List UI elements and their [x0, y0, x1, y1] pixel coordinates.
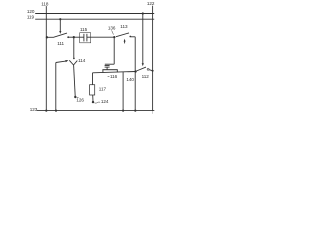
- node junction switch 113: [113, 36, 115, 38]
- wire main line from switch 111 to capacitor 115: [69, 36, 80, 38]
- svg-text:112: 112: [142, 74, 150, 79]
- wire main line from capacitor 115 to switch 113: [91, 36, 115, 38]
- actuator arrow for switch 113 (points up at blade): [124, 39, 126, 44]
- capacitor C115: [80, 34, 91, 42]
- leader tick 136: [112, 30, 114, 34]
- wire vertical from mid line down to bottom bus (labelled 140): [122, 72, 124, 111]
- svg-text:124: 124: [101, 99, 109, 104]
- node bottom bus at actuator line: [55, 110, 57, 112]
- tube 116 top tee: [105, 63, 114, 65]
- node junction switch 112: [134, 70, 136, 72]
- leader dash 126: [77, 96, 79, 98]
- leader squiggle 124: [95, 102, 101, 103]
- wire vertical 122 (right side, down to bottom bus): [152, 6, 154, 111]
- node corner: [152, 70, 154, 72]
- switch 111 blade: [53, 33, 67, 37]
- svg-text:118: 118: [41, 1, 49, 6]
- switch 114 top contact: [73, 58, 75, 60]
- svg-text:122: 122: [147, 1, 155, 6]
- actuator arrow for switch 114: [56, 60, 69, 63]
- svg-text:116: 116: [110, 74, 118, 79]
- svg-text:115: 115: [80, 27, 88, 32]
- terminal dot 126: [74, 96, 76, 98]
- tube 116: feed wire from switch 113 junction: [113, 37, 115, 64]
- wire vertical actuator 114 down to bottom bus: [55, 63, 57, 111]
- svg-text:111: 111: [57, 41, 64, 46]
- node junction switch 111 on vertical 118: [46, 36, 48, 38]
- svg-text:120: 120: [27, 9, 35, 14]
- wire below resistor 117: [92, 95, 94, 101]
- node bottom bus at vertical 118: [45, 110, 47, 112]
- switch 113 blade: [116, 33, 129, 37]
- wire from switch 113 contact to corner: [131, 36, 135, 38]
- svg-text:113: 113: [120, 24, 128, 29]
- wire vertical hang: node to switch 114: [73, 37, 75, 58]
- node on bus A for switch 112 actuator: [142, 12, 144, 14]
- switch 111 right contact: [67, 36, 69, 38]
- terminal dot 124: [92, 101, 94, 103]
- resistor R117: [90, 85, 95, 95]
- wire from switch 114 down to terminal 126: [74, 65, 76, 96]
- node bottom bus at vertical 135: [134, 110, 136, 112]
- wire from contact to corner of vertical 122: [149, 70, 152, 71]
- tube 116 grid capacitor plates: [105, 66, 110, 70]
- node on bus B for switch 111 actuator: [59, 18, 61, 20]
- wire mid horizontal line: [93, 72, 136, 73]
- svg-text:126: 126: [76, 98, 84, 103]
- actuator arrow for switch 111: [59, 19, 61, 34]
- wire stub to switch 111: [46, 36, 53, 38]
- svg-text:140: 140: [126, 77, 134, 82]
- actuator arrow for switch 112: [142, 14, 144, 67]
- tube 116 plate bar: [102, 69, 117, 71]
- switch 112 contact circle: [147, 68, 149, 70]
- wire bottom bus: [37, 110, 155, 112]
- node bottom bus at vertical 140: [122, 110, 124, 112]
- svg-text:136: 136: [108, 25, 116, 30]
- node hang for switch 114: [73, 36, 75, 38]
- wire tail below bus: [152, 111, 154, 114]
- tube 116 legs: [103, 70, 117, 73]
- svg-text:123: 123: [30, 107, 38, 112]
- wire left branch down to resistor 117: [92, 73, 94, 85]
- svg-text:119: 119: [27, 15, 35, 20]
- capacitor C115 box: [80, 33, 91, 43]
- wire bus B: [35, 18, 154, 20]
- wire vertical 118: [45, 6, 47, 111]
- label 116 leader dash: [108, 75, 110, 77]
- wire bus A: [35, 13, 154, 15]
- switch 112 blade: [136, 67, 146, 71]
- svg-text:114: 114: [78, 58, 86, 63]
- svg-text:117: 117: [99, 87, 107, 92]
- wire vertical from corner down to bottom bus: [134, 37, 136, 111]
- switch 113 right contact: [129, 36, 131, 38]
- switch 114 V contacts: [69, 60, 77, 65]
